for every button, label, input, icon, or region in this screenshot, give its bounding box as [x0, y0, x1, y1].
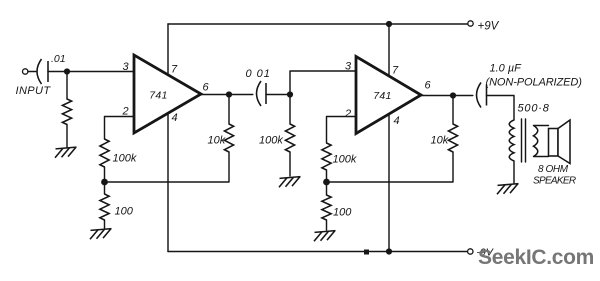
- wire: resistor R5 to ground: [289, 152, 291, 176]
- svg-text:1.0 µF: 1.0 µF: [490, 63, 523, 75]
- svg-text:3: 3: [345, 61, 352, 73]
- svg-text:4: 4: [394, 115, 400, 127]
- transformer T1 primary winding (500 ohm side): [509, 120, 514, 161]
- wire: node C down to resistor R7: [326, 182, 328, 195]
- node: input junction to bias resistor: [64, 68, 70, 74]
- wire: resistor R8 bottom to feedback node C: [327, 152, 454, 182]
- capacitor C3 1.0 uF non-polarized output coupling: [477, 83, 482, 108]
- svg-text:6: 6: [425, 80, 432, 92]
- resistor R6 100k (U2 feedback): [322, 143, 331, 170]
- resistor R3 100 (U1 gain set): [100, 194, 109, 220]
- capacitor C2 0.01 interstage coupling: [257, 81, 262, 106]
- node C: junction R6/R7/feedback wire: [323, 179, 330, 186]
- wire: input terminal to capacitor C1: [28, 71, 36, 73]
- ground: below resistor R7: [315, 231, 336, 233]
- wire: op-amp U1 output pin 6 to capacitor C2: [201, 94, 253, 96]
- wire: T1 secondary to speaker (top lead): [534, 125, 549, 127]
- ground: below resistor R5: [280, 177, 301, 179]
- wire: resistor R7 to ground: [326, 220, 328, 230]
- svg-text:100: 100: [333, 207, 352, 219]
- node: junction of +9V rail and U2 pin 7: [386, 21, 392, 27]
- wire: +9V rail down to op-amp U2 pin 7: [388, 24, 390, 77]
- terminal: bottom rail open circle (-9V): [468, 249, 473, 254]
- wire: output node down to resistor R8: [452, 96, 454, 125]
- svg-text:100k: 100k: [113, 153, 137, 165]
- resistor R2 100k (U1 feedback): [100, 139, 109, 167]
- wire: resistor R1 to ground: [66, 125, 68, 148]
- transformer T1 secondary winding (8 ohm side): [534, 126, 538, 157]
- wire: op-amp U2 output pin 6 to capacitor C3: [421, 95, 473, 97]
- svg-text:(NON-POLARIZED): (NON-POLARIZED): [486, 77, 583, 89]
- speaker LS1 driver body: [549, 129, 559, 157]
- wire: node A down to resistor R3: [104, 182, 106, 194]
- wire: node B up and right to op-amp U2 pin 3: [290, 71, 356, 95]
- svg-text:SPEAKER: SPEAKER: [533, 176, 576, 187]
- resistor R7 100 (U2 gain set): [322, 195, 331, 220]
- wire: node B down to resistor R5: [289, 95, 291, 125]
- wire: T1 secondary to speaker (bottom lead): [534, 156, 549, 158]
- svg-text:7: 7: [392, 65, 399, 77]
- ground: below resistor R3: [91, 229, 112, 231]
- ground: below transformer T1: [498, 184, 519, 186]
- op-amp U1 741: [134, 55, 201, 133]
- svg-text:2: 2: [122, 106, 129, 118]
- transformer T1 core: [521, 119, 523, 162]
- svg-text:8 OHM: 8 OHM: [538, 164, 569, 175]
- resistor R4 10k (U1 load): [224, 124, 233, 152]
- node: junction of U2 pin 4 and bottom rail: [386, 248, 392, 254]
- svg-text:INPUT: INPUT: [16, 85, 52, 97]
- svg-text:2: 2: [344, 108, 351, 120]
- svg-text:741: 741: [149, 90, 167, 102]
- ground: below resistor R1: [56, 147, 77, 149]
- wire: resistor R2 to node A: [104, 167, 106, 182]
- resistor R8 10k (U2 load): [448, 124, 457, 152]
- wire: op-amp U1 pin 7 to +9V rail: [167, 24, 169, 75]
- wire: capacitor C2 to node B: [266, 94, 290, 96]
- svg-text:10k: 10k: [431, 135, 449, 147]
- terminal: +9V open circle: [468, 21, 473, 26]
- svg-text:100: 100: [115, 206, 134, 218]
- svg-text:0 01: 0 01: [246, 68, 271, 80]
- svg-text:4: 4: [172, 112, 178, 124]
- svg-text:.01: .01: [51, 53, 66, 65]
- node B: junction C2 / R5 / U2 pin 3: [287, 91, 293, 97]
- svg-text:6: 6: [203, 82, 210, 94]
- wire: output node down to resistor R4: [228, 95, 230, 125]
- terminal: INPUT open circle: [23, 69, 28, 74]
- wire: bottom negative supply rail: [168, 251, 467, 253]
- op-amp U2 741: [356, 57, 421, 134]
- wire: +9V top supply rail: [168, 23, 467, 25]
- wire: op-amp U2 pin 2 to feedback resistor R6: [327, 117, 357, 144]
- wire: input node down to resistor R1: [66, 72, 68, 100]
- node: U2 output junction with resistor R8: [450, 92, 456, 98]
- wire: capacitor C3 to transformer T1 primary: [487, 96, 515, 121]
- svg-text:741: 741: [373, 90, 391, 102]
- resistor R5 100k (U2 input bias): [285, 124, 294, 152]
- wire: transformer T1 primary to ground: [513, 161, 515, 183]
- svg-text:+9V: +9V: [478, 21, 500, 33]
- wire: op-amp U2 pin 4 down to negative rail: [388, 114, 390, 252]
- wire: op-amp U1 pin 4 down to negative rail: [167, 114, 169, 252]
- svg-text:10k: 10k: [208, 135, 226, 147]
- wire: op-amp U1 pin 2 to feedback resistor R2: [105, 117, 135, 140]
- wire: resistor R6 to node C: [326, 170, 328, 182]
- svg-text:SeekIC.com: SeekIC.com: [478, 246, 594, 269]
- svg-text:100k: 100k: [333, 154, 357, 166]
- svg-text:100k: 100k: [259, 135, 283, 147]
- wire: capacitor C1 to op-amp U1 pin 3: [48, 71, 134, 73]
- node A: junction R2/R3/feedback wire: [101, 179, 108, 186]
- wire: resistor R4 bottom to feedback node A: [105, 152, 230, 182]
- node: U1 output junction with resistor R4: [226, 91, 232, 97]
- svg-text:3: 3: [123, 61, 130, 73]
- svg-text:500·8: 500·8: [518, 103, 550, 115]
- capacitor C1 .01 input coupling: [37, 59, 42, 84]
- svg-text:7: 7: [171, 64, 178, 76]
- artifact blob on bottom rail: [364, 250, 369, 255]
- wire: resistor R3 to ground: [104, 220, 106, 228]
- resistor R1 (input bias, no value shown): [62, 99, 71, 125]
- speaker LS1 cone: [558, 120, 570, 164]
